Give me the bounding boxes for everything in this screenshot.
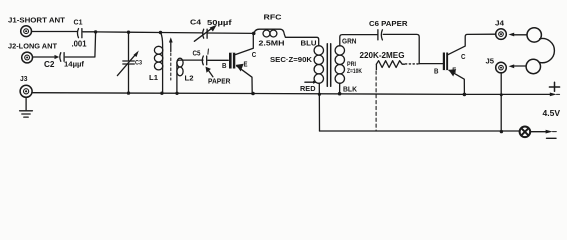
arrow into C2 xyxy=(55,55,60,59)
svg-text:C1: C1 xyxy=(74,18,83,27)
arrow earphone to J5 xyxy=(509,64,526,68)
wire C2 up to node A xyxy=(65,33,95,58)
wire ground rail xyxy=(33,93,550,95)
inductor L1 xyxy=(154,33,162,94)
transformer T1 core xyxy=(327,44,330,86)
wire C1 to node A xyxy=(83,31,96,33)
jack J4 xyxy=(496,29,507,40)
svg-text:J1-SHORT ANT: J1-SHORT ANT xyxy=(8,16,65,25)
tuning arrow between L1 and L2 xyxy=(169,37,173,80)
svg-text:C: C xyxy=(252,50,257,59)
wire lamp to battery minus xyxy=(530,131,545,133)
capacitor C2 xyxy=(60,53,64,62)
svg-text:RFC: RFC xyxy=(264,13,282,22)
svg-text:PRI: PRI xyxy=(347,61,356,68)
earphone lower shell xyxy=(526,59,540,73)
wire base line to Q2 xyxy=(419,63,443,65)
wire C5 to Q1 base xyxy=(208,59,229,61)
node Q1 collector junction xyxy=(252,32,256,36)
svg-text:RED: RED xyxy=(300,84,316,93)
svg-text:SEC·Z=90K: SEC·Z=90K xyxy=(270,55,312,64)
transistor Q2 xyxy=(443,34,496,94)
svg-text:C3: C3 xyxy=(135,60,142,67)
svg-text:2.5MH: 2.5MH xyxy=(259,39,285,48)
wire C6 to corner and down to base line xyxy=(383,34,419,63)
svg-text:E: E xyxy=(244,62,248,69)
svg-text:B: B xyxy=(434,67,439,76)
node RED crossing xyxy=(318,93,321,96)
svg-text:50µµf: 50µµf xyxy=(207,18,232,27)
choke RFC 2.5MH xyxy=(254,29,319,46)
node C3 bottom junction xyxy=(127,91,130,94)
node Q1 emitter junction xyxy=(251,92,255,96)
node Q2 emitter junction xyxy=(463,93,467,97)
svg-text:14µµf: 14µµf xyxy=(64,60,85,69)
wire battery lower rail xyxy=(320,130,520,132)
node L2 bottom junction xyxy=(175,92,178,95)
wire GRN lead up to C6 xyxy=(340,35,377,46)
capacitor C1 xyxy=(77,29,81,38)
svg-text:J4: J4 xyxy=(495,19,504,28)
svg-text:BLK: BLK xyxy=(343,85,358,94)
svg-text:BLU: BLU xyxy=(301,38,317,47)
capacitor C3 variable xyxy=(117,51,138,76)
svg-text:GRN: GRN xyxy=(342,37,357,46)
wire J2 to arrow xyxy=(33,56,54,58)
capacitor C5 xyxy=(202,49,208,65)
battery minus plate xyxy=(547,137,557,139)
svg-text:4.5V: 4.5V xyxy=(543,109,561,118)
wire RED lead down xyxy=(318,83,320,131)
battery negative arrowhead xyxy=(546,130,553,134)
resistor R1 220K-2MEG xyxy=(376,61,418,70)
node J5 rail crossing xyxy=(500,93,503,96)
wire BLK lead down xyxy=(339,83,341,93)
dashed link R1 to switch xyxy=(375,71,377,131)
svg-text:220K-2MEG: 220K-2MEG xyxy=(360,51,405,60)
jack J1 xyxy=(21,26,32,37)
transformer T1 primary winding xyxy=(335,46,344,84)
transformer T1 secondary winding xyxy=(314,46,323,84)
svg-text:J3: J3 xyxy=(20,74,28,83)
wire J5 down to lower rail xyxy=(500,73,502,132)
capacitor C4 variable xyxy=(194,25,217,42)
jack J2 xyxy=(22,52,33,63)
wire C3 top lead xyxy=(128,32,130,60)
ground xyxy=(20,98,33,118)
jack J3 xyxy=(20,85,32,97)
svg-text:E: E xyxy=(452,68,456,75)
svg-text:C: C xyxy=(461,52,466,61)
svg-text:.001: .001 xyxy=(72,40,88,49)
svg-text:Z=10K: Z=10K xyxy=(347,68,362,75)
svg-text:C4: C4 xyxy=(190,18,202,27)
node L1 bottom junction xyxy=(160,92,163,95)
capacitor C6 xyxy=(378,30,383,40)
svg-text:C5: C5 xyxy=(193,49,201,58)
svg-text:L2: L2 xyxy=(185,74,194,83)
svg-text:C2: C2 xyxy=(44,60,55,69)
earphone upper shell xyxy=(527,28,541,42)
arrow earphone to J4 xyxy=(509,33,527,37)
wire top line J1 to C1 xyxy=(32,31,78,33)
svg-text:C6 PAPER: C6 PAPER xyxy=(369,19,408,28)
inductor L2 xyxy=(177,58,203,93)
battery plus sign xyxy=(549,82,559,91)
node C3 top junction xyxy=(127,31,130,34)
transistor Q1 xyxy=(229,34,253,94)
svg-text:L1: L1 xyxy=(149,73,158,82)
node BLK junction xyxy=(338,92,342,96)
wire C3 bottom lead xyxy=(128,64,130,93)
node L1 top junction xyxy=(159,31,162,34)
wire C4 right plate to Q1 collector node xyxy=(208,32,254,34)
node A junction xyxy=(94,30,97,33)
svg-text:J5: J5 xyxy=(486,57,495,66)
svg-text:B: B xyxy=(222,61,227,70)
svg-text:J2-LONG ANT: J2-LONG ANT xyxy=(8,41,57,50)
svg-text:PAPER: PAPER xyxy=(208,77,231,86)
battery positive arrowhead xyxy=(550,93,557,97)
node J5 lower junction xyxy=(500,130,503,133)
wire node A to C4 left plate xyxy=(96,32,203,33)
earphone cord arc xyxy=(539,39,554,63)
jack J5 xyxy=(496,62,507,73)
lamp/switch xyxy=(520,127,531,138)
